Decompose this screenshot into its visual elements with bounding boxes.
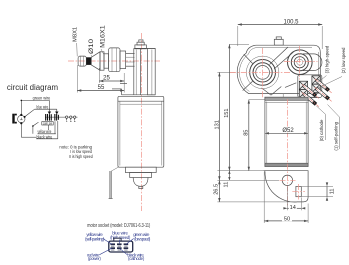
svg-text:(2) low speed: (2) low speed (341, 47, 346, 73)
svg-text:11: 11 (223, 182, 229, 188)
svg-text:black wire: black wire (37, 134, 53, 139)
svg-text:green wire: green wire (33, 95, 51, 100)
svg-text:(self-parking): (self-parking) (85, 236, 105, 241)
svg-text:M8X1: M8X1 (72, 27, 78, 42)
svg-text:(low speed): (low speed) (134, 237, 151, 242)
svg-text:55: 55 (98, 85, 105, 91)
svg-text:motor socket (model: DJ7061-: motor socket (model: DJ7061-6.3-11) (87, 223, 150, 229)
svg-text:151: 151 (224, 108, 230, 117)
svg-text:131: 131 (214, 120, 220, 129)
svg-text:(3) high-speed: (3) high-speed (325, 45, 330, 73)
svg-text:26.5: 26.5 (214, 184, 220, 195)
svg-text:(1) self-parking: (1) self-parking (334, 121, 339, 150)
svg-text:85: 85 (244, 130, 250, 136)
svg-text:25: 25 (103, 76, 110, 82)
svg-text:11: 11 (330, 188, 336, 194)
svg-text:Ø52: Ø52 (282, 128, 294, 134)
svg-text:(cathode): (cathode) (128, 256, 145, 261)
svg-text:(0) cathode: (0) cathode (319, 119, 324, 141)
svg-text:14: 14 (290, 205, 296, 211)
svg-text:blue wire: blue wire (37, 105, 49, 110)
svg-text:cam sw: cam sw (43, 122, 53, 126)
svg-text:M16X1: M16X1 (99, 25, 106, 48)
svg-text:50: 50 (284, 216, 290, 222)
svg-text:Ø10: Ø10 (88, 38, 95, 54)
svg-text:circuit diagram: circuit diagram (7, 83, 59, 92)
svg-text:(power): (power) (88, 256, 101, 261)
svg-text:II is high speed: II is high speed (69, 154, 93, 159)
